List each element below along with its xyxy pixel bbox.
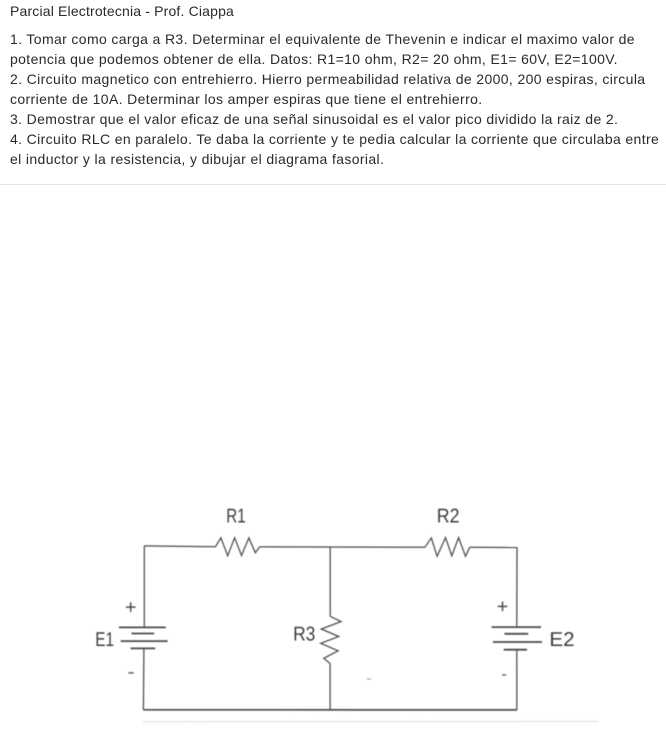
stray minus mark bbox=[367, 678, 371, 680]
resistor R1 bbox=[216, 538, 260, 556]
wire right vertical upper bbox=[516, 548, 518, 627]
minus sign E2 bbox=[502, 674, 506, 676]
wire bottom horizontal bbox=[143, 709, 517, 711]
plus sign E1 bbox=[126, 602, 136, 612]
wire left vertical lower bbox=[142, 648, 145, 709]
minus sign E1 bbox=[128, 672, 133, 674]
wire top-middle horizontal bbox=[260, 546, 425, 548]
battery E2 bbox=[492, 627, 542, 650]
wire middle vertical upper bbox=[329, 547, 331, 617]
svg-text:E2: E2 bbox=[549, 629, 574, 651]
svg-text:R1: R1 bbox=[226, 505, 245, 527]
wire middle vertical lower bbox=[329, 664, 331, 710]
scan shadow under bottom wire bbox=[143, 720, 599, 723]
resistor R2 bbox=[425, 538, 470, 557]
svg-text:R3: R3 bbox=[293, 624, 315, 646]
paragraph: exam questions bbox=[10, 29, 659, 169]
svg-text:E1: E1 bbox=[95, 629, 114, 651]
title bbox=[10, 1, 234, 21]
wire top-right horizontal bbox=[470, 546, 518, 548]
wire right vertical lower bbox=[516, 650, 518, 710]
battery E1 bbox=[119, 627, 168, 648]
divider line bbox=[0, 184, 666, 185]
svg-text:R2: R2 bbox=[437, 505, 460, 527]
resistor R3 bbox=[321, 616, 341, 663]
wire left vertical upper bbox=[143, 546, 145, 628]
plus sign E2 bbox=[498, 602, 508, 612]
wire top-left horizontal bbox=[144, 545, 215, 548]
